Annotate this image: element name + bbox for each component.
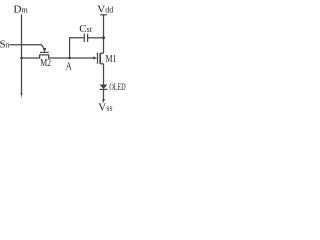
svg-text:Cst: Cst <box>79 23 92 35</box>
svg-text:Dm: Dm <box>14 3 29 15</box>
svg-text:Sn: Sn <box>0 39 10 51</box>
svg-text:A: A <box>66 61 72 73</box>
svg-text:Vss: Vss <box>98 101 112 113</box>
svg-text:M2: M2 <box>40 58 51 69</box>
svg-text:M1: M1 <box>106 54 117 65</box>
svg-text:OLED: OLED <box>109 82 126 92</box>
svg-text:Vdd: Vdd <box>97 3 113 15</box>
